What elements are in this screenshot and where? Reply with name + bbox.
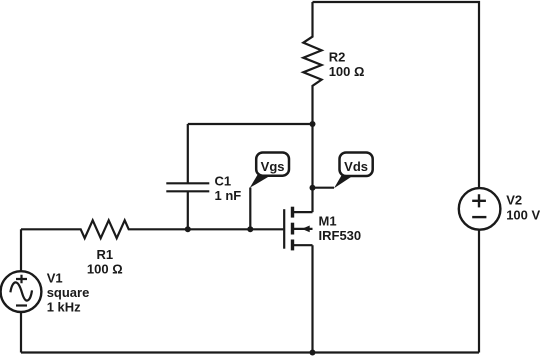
svg-text:V2: V2	[506, 193, 522, 208]
svg-text:1 kHz: 1 kHz	[47, 300, 81, 315]
svg-text:square: square	[47, 285, 90, 300]
svg-text:M1: M1	[319, 214, 337, 229]
svg-text:100 Ω: 100 Ω	[329, 64, 365, 79]
svg-text:C1: C1	[215, 173, 232, 188]
svg-text:Vds: Vds	[344, 159, 368, 174]
svg-text:100 V: 100 V	[506, 208, 540, 223]
svg-text:V1: V1	[47, 271, 63, 286]
svg-text:1 nF: 1 nF	[215, 188, 242, 203]
svg-text:R2: R2	[329, 50, 346, 65]
svg-text:IRF530: IRF530	[319, 228, 362, 243]
svg-text:R1: R1	[96, 247, 113, 262]
svg-text:100 Ω: 100 Ω	[87, 261, 123, 276]
svg-text:Vgs: Vgs	[261, 159, 285, 174]
